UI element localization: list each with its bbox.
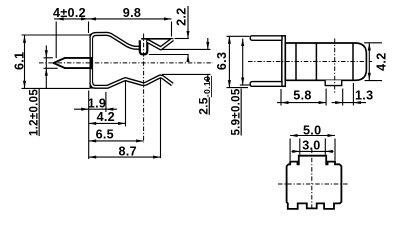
barrel body with rounded right end <box>285 43 366 80</box>
dim 5.0 left extension line <box>289 139 291 161</box>
dim 6.1 bottom extension line <box>22 87 90 89</box>
svg-text:1.2±0.05: 1.2±0.05 <box>29 89 41 136</box>
dim 5.0: dimension line <box>290 135 335 137</box>
dim 3.0: dimension line with outside arrows <box>292 150 334 152</box>
bottom lance tab under barrel <box>325 80 342 85</box>
dim 5.0 right extension line <box>334 139 336 161</box>
dim 8.7 right extension line (from second bottom bump) <box>160 78 162 159</box>
dim 9.8 extension line at flare tip <box>171 22 173 37</box>
svg-text:1.3: 1.3 <box>355 89 373 103</box>
dim 2.2 bottom extension line (from tab bottom) <box>149 54 189 56</box>
dim 1.3 left extension line (lance right) <box>342 89 344 106</box>
dim 1.9 right extension line <box>105 92 107 112</box>
top spring finger profile (hump descending to tab valley, double line) <box>91 34 141 48</box>
dim 5.9±0.05 plate height: dimension line <box>242 39 244 86</box>
barrel divider line 3 (before rounded cap) <box>352 43 354 80</box>
dim 4±0.2 extension line at pin tip <box>55 22 57 59</box>
bottom dimension stack: common left extension line at wall <box>88 91 90 160</box>
bottom flange (bent-over lip) <box>250 82 282 87</box>
dim 4.2 barrel diameter: dimension line <box>368 43 370 80</box>
dim 2.5-0.10 bottom extension line (from bottom bump) <box>162 73 211 75</box>
svg-text:6.5: 6.5 <box>96 128 114 142</box>
dim 6.1 top extension line <box>22 34 92 36</box>
svg-text:9.8: 9.8 <box>123 6 141 20</box>
right view: vertical centerline through bottom lance <box>334 39 336 95</box>
end view: vertical centerline <box>311 149 313 211</box>
dim 4±0.2 / 9.8 shared extension line at wall <box>88 22 90 34</box>
dim 6.3 top extension line <box>227 35 250 37</box>
svg-text:8.7: 8.7 <box>118 144 136 158</box>
contact pin (side view, pointed tip) <box>54 58 91 68</box>
dim 1.3 right extension line (cap divider) <box>352 83 354 106</box>
dim 2.2 flare-to-tab depth: dimension line with outside arrows <box>187 6 189 39</box>
stop tab (crimped lance hanging in top valley) <box>139 39 149 55</box>
dim 5.8 right extension line (lance left) <box>325 89 327 106</box>
dim 4.2 bottom extension line <box>365 80 383 82</box>
dim 9.8 body length: dimension line <box>89 18 172 20</box>
end view body outline with corner notches, top tab and mounting feet <box>287 156 342 209</box>
dim 8.7: dimension line <box>89 156 161 158</box>
dim 2.2 top extension line <box>175 38 189 40</box>
barrel divider line 1 <box>295 43 297 80</box>
dim 5.9±0.05 bottom extension line <box>240 84 251 86</box>
svg-text:6.1: 6.1 <box>12 52 26 70</box>
dim 1.2±0.05 extension lines <box>44 57 53 59</box>
svg-text:4±0.2: 4±0.2 <box>53 6 86 20</box>
bottom spring finger profile (two contact bumps, double line) <box>91 77 172 87</box>
svg-text:2.2: 2.2 <box>174 7 188 25</box>
svg-text:6.3: 6.3 <box>215 52 229 70</box>
dim 1.3: dimension line with outside arrows <box>332 102 367 104</box>
right view: horizontal centerline <box>248 61 372 63</box>
dim 1.2±0.05 pin thickness: dimension line with outside arrows <box>45 46 47 89</box>
dim 4±0.2 pin length: dimension line <box>54 18 89 20</box>
dim 2.5-0.10 contact gap: dimension line with outside arrows <box>207 38 209 49</box>
dim 3.0 extension lines <box>299 139 301 155</box>
svg-text:3.0: 3.0 <box>302 139 320 153</box>
dim 5.8: dimension line <box>277 102 326 104</box>
left view: horizontal centerline (pin axis) <box>39 62 213 64</box>
dim 4.2: dimension line <box>89 122 126 124</box>
svg-text:5.9±0.05: 5.9±0.05 <box>231 88 243 135</box>
front plate (edge-on vertical bar) <box>282 36 286 87</box>
dim 6.5: dimension line <box>89 140 144 142</box>
far-side finger top edge <box>141 38 173 40</box>
left view: vertical centerline through stop tab <box>143 34 145 143</box>
barrel divider line 2 <box>315 43 317 80</box>
dim 2.5-0.10 top extension line (from V valley) <box>162 48 211 50</box>
dim 6.3 bottom extension line <box>227 87 249 89</box>
top finger end (V contact and flare tip, double line) <box>147 39 172 48</box>
top flange (bent-over lip) <box>250 36 282 41</box>
svg-text:4.2: 4.2 <box>374 52 388 70</box>
svg-text:4.2: 4.2 <box>97 110 115 124</box>
dim 4.2 top extension line <box>364 42 382 44</box>
dim 4.2 right extension line (from first bottom bump) <box>125 81 127 126</box>
dim 6.3 flange height: dimension line <box>228 36 230 87</box>
dim 5.8 left extension line (plate edge) <box>280 89 282 106</box>
svg-text:1.9: 1.9 <box>88 96 106 110</box>
clip body left wall (sheet metal, double line) <box>90 34 94 89</box>
dim 6.1 overall height: dimension line <box>24 35 26 88</box>
end view: horizontal centerline <box>278 183 350 185</box>
svg-text:5.8: 5.8 <box>293 89 311 103</box>
dim 1.9: dimension line with outside arrows <box>74 108 117 110</box>
svg-text:5.0: 5.0 <box>303 123 321 137</box>
